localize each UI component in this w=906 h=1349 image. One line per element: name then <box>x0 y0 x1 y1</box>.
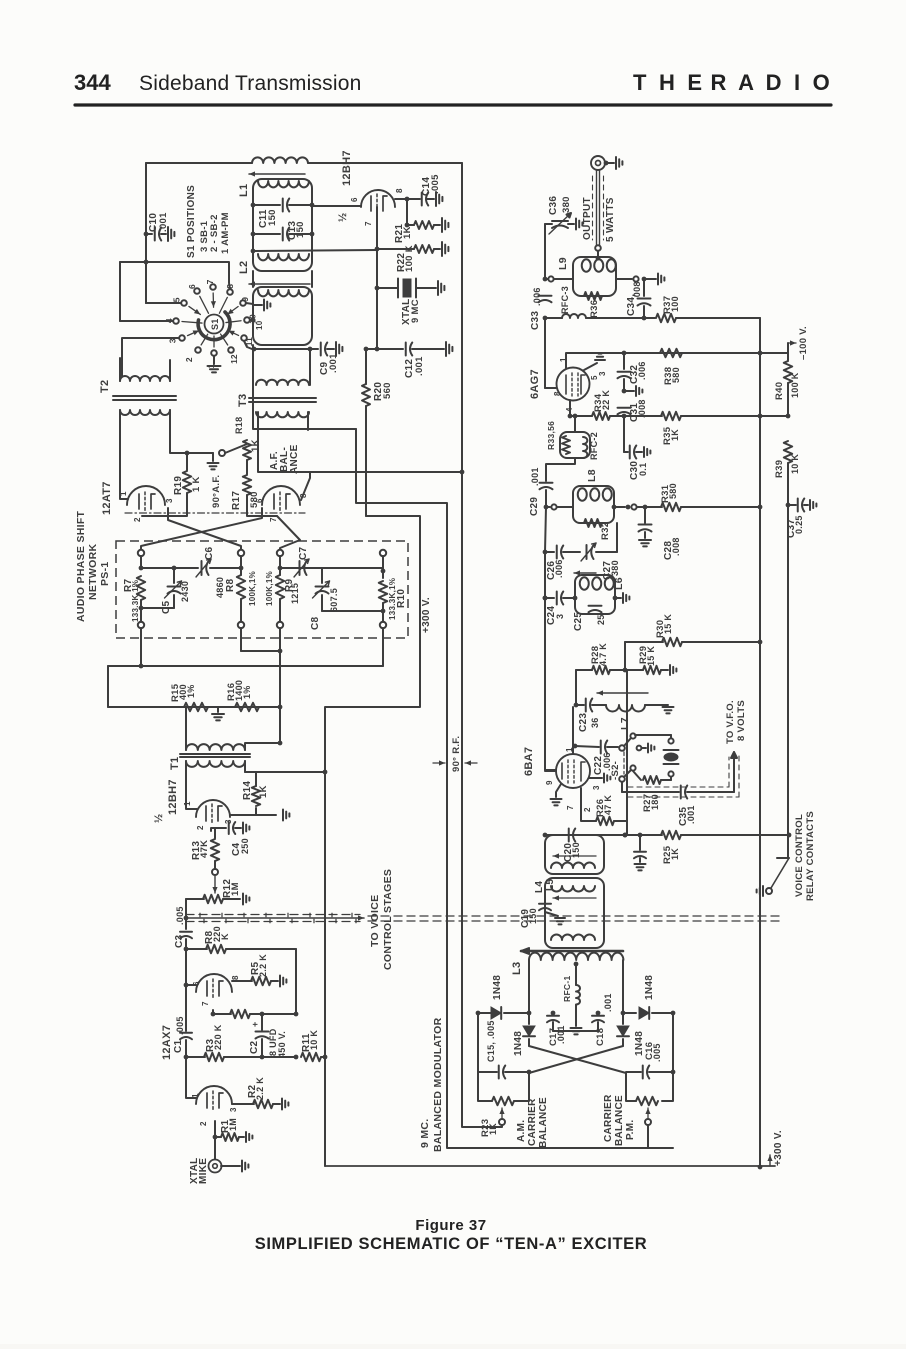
capacitor C20 <box>568 829 570 842</box>
wire 6BA7 pin7 ground <box>556 784 561 797</box>
svg-text:3: 3 <box>598 371 607 376</box>
svg-text:.001: .001 <box>328 353 339 373</box>
wire T3 sec left <box>258 412 310 472</box>
capacitor C23 <box>574 703 579 708</box>
capacitor C31 <box>618 407 631 409</box>
wire 6BA7 grid1 <box>545 770 556 772</box>
resistor R2 <box>232 1103 254 1105</box>
wire R8 down <box>295 949 297 1014</box>
ground C19 <box>545 912 558 916</box>
pot AM carrier balance <box>478 1072 492 1101</box>
svg-text:Sideband Transmission: Sideband Transmission <box>139 72 362 95</box>
tube V3 half 12BH7 <box>196 800 230 817</box>
svg-text:2: 2 <box>583 807 592 812</box>
microphone jack <box>209 1160 222 1173</box>
wire right rail B+ <box>759 318 761 1167</box>
capacitor C34 <box>643 279 645 296</box>
wire contact4 <box>120 320 173 322</box>
wire C17 C18 bus <box>553 1030 598 1032</box>
svg-text:1M: 1M <box>230 882 241 896</box>
terminal PS-1 bottom <box>238 622 244 628</box>
svg-text:C5: C5 <box>161 600 172 614</box>
svg-text:R18: R18 <box>234 417 244 434</box>
svg-text:P.M.: P.M. <box>625 1120 636 1140</box>
svg-text:.006: .006 <box>532 287 542 306</box>
transformer T3 <box>256 380 309 385</box>
resistor R4 <box>213 1013 231 1015</box>
svg-text:12AT7: 12AT7 <box>101 481 113 515</box>
switch S1 contact 5 <box>181 300 187 306</box>
resistor R11 <box>301 1053 321 1061</box>
svg-text:A.M.: A.M. <box>516 1120 527 1142</box>
wire R15 R16 row <box>107 666 109 707</box>
wire T2 primary left <box>119 358 121 381</box>
wire C30 <box>623 416 625 452</box>
resistor R13 <box>211 839 219 861</box>
dashed shield C35 <box>628 786 729 788</box>
svg-text:C36: C36 <box>548 196 559 215</box>
wire R28 R30 rail <box>624 642 626 670</box>
svg-text:1%: 1% <box>186 684 196 698</box>
wire plate to V-B <box>310 471 462 473</box>
wire bottom B+ rail <box>325 1165 775 1167</box>
wire tank divider to R22 line <box>251 249 256 254</box>
svg-text:RELAY CONTACTS: RELAY CONTACTS <box>805 811 816 901</box>
svg-text:580: 580 <box>249 491 260 508</box>
resistor R7 <box>140 556 142 568</box>
tube V2 half 12BH7 <box>361 190 395 207</box>
svg-text:C7: C7 <box>298 546 309 560</box>
svg-text:C15, .005: C15, .005 <box>486 1020 496 1062</box>
resistor R34 <box>592 412 610 420</box>
coupling bar L3 <box>521 950 623 953</box>
svg-text:C29: C29 <box>529 497 540 516</box>
wire crossover B <box>141 508 262 550</box>
svg-text:R17: R17 <box>231 491 242 510</box>
svg-text:RFC-2: RFC-2 <box>589 432 599 460</box>
switch S2 pole upper <box>619 745 625 751</box>
svg-text:8: 8 <box>231 975 240 980</box>
svg-text:4.7 K: 4.7 K <box>598 643 608 666</box>
svg-text:220 K: 220 K <box>213 1024 223 1050</box>
wire plate V4a <box>212 1010 214 1014</box>
wire C29 to L8 <box>546 506 550 508</box>
capacitor C12 <box>375 347 380 352</box>
svg-text:5: 5 <box>172 297 182 302</box>
svg-text:.008: .008 <box>632 281 642 300</box>
svg-text:6: 6 <box>187 284 197 289</box>
capacitor C22 <box>575 746 599 747</box>
capacitor C11 <box>253 204 280 206</box>
wire T2 primary right <box>169 360 171 381</box>
tuning arrow lower tank <box>249 283 310 285</box>
svg-text:0.25: 0.25 <box>794 515 804 534</box>
capacitor C35 row <box>621 782 623 792</box>
tube V1a 12AT7 <box>127 486 165 505</box>
wire L9 right <box>616 278 632 280</box>
svg-text:1N48: 1N48 <box>492 975 503 1000</box>
svg-text:7: 7 <box>269 517 278 522</box>
svg-text:250: 250 <box>240 838 250 854</box>
svg-text:C23: C23 <box>578 713 589 732</box>
diode D2 1N48 <box>639 1007 649 1019</box>
box PS-1 dashed <box>116 541 408 638</box>
resistor R29 <box>625 669 643 671</box>
resistor R9 <box>279 556 281 575</box>
tube V6 6BA7 <box>556 754 590 788</box>
switch S2 ground contact <box>637 746 642 751</box>
90 degree RF marker <box>433 762 445 764</box>
resistor R5 <box>232 980 252 982</box>
wire crossover D <box>277 516 300 550</box>
resistor R39 <box>760 415 788 417</box>
svg-text:MIKE: MIKE <box>198 1158 209 1184</box>
capacitor C17 <box>552 1013 554 1014</box>
svg-text:TO V.F.O.: TO V.F.O. <box>725 700 736 744</box>
terminal PS-1 bottom <box>380 622 386 628</box>
svg-text:NETWORK: NETWORK <box>87 544 99 600</box>
wiper R12 <box>214 861 216 869</box>
svg-text:1 AM-PM: 1 AM-PM <box>220 212 231 254</box>
svg-text:L9: L9 <box>557 257 569 270</box>
wire 6AG7 cathode <box>569 400 571 416</box>
svg-text:RFC-1: RFC-1 <box>562 975 572 1002</box>
relay contact <box>777 857 789 859</box>
capacitor C10 <box>144 232 149 237</box>
resistor R21 <box>406 199 408 225</box>
wire contact10 <box>250 319 253 321</box>
capacitor C6 variable <box>174 567 198 569</box>
capacitor C32 <box>623 353 625 369</box>
svg-text:100 K: 100 K <box>790 372 800 398</box>
wire x280 down <box>279 651 281 743</box>
svg-text:.006: .006 <box>637 361 647 380</box>
wire ring right rail <box>662 1013 673 1101</box>
wire relay rail <box>787 505 789 858</box>
svg-text:36: 36 <box>590 717 600 728</box>
A.F. balance wiper <box>187 452 213 454</box>
svg-text:R19: R19 <box>173 476 184 495</box>
svg-text:150: 150 <box>267 209 278 226</box>
wire cathode stub <box>365 348 367 350</box>
tube V5 6AG7 <box>557 368 590 401</box>
svg-text:OUTPUT: OUTPUT <box>582 197 593 240</box>
svg-text:450 V.: 450 V. <box>277 1031 287 1058</box>
crystal S2 <box>668 771 673 776</box>
capacitor C5 variable <box>141 567 174 569</box>
diode D4 1N48 <box>622 1013 624 1024</box>
wire contact3 <box>122 338 179 376</box>
svg-text:2.2 K: 2.2 K <box>255 1077 265 1100</box>
tank L8 box <box>573 486 614 523</box>
svg-text:.001: .001 <box>414 356 425 376</box>
svg-text:C2: C2 <box>249 1040 260 1054</box>
wire 6BA7 pin3 ground <box>589 777 602 779</box>
svg-text:L7: L7 <box>619 717 631 730</box>
switch S1 contact 8 <box>227 289 233 295</box>
svg-text:.001: .001 <box>158 212 169 232</box>
svg-text:1215: 1215 <box>290 583 300 604</box>
capacitor C16 <box>626 1071 641 1073</box>
svg-text:6BA7: 6BA7 <box>523 747 535 776</box>
resistor R15 <box>184 703 208 711</box>
tuning arrow L1 <box>249 173 305 175</box>
coil L2 <box>258 254 309 260</box>
header rule <box>75 103 831 106</box>
svg-text:380: 380 <box>561 196 572 213</box>
wire cross X <box>529 1046 626 1073</box>
svg-text:R32: R32 <box>600 522 611 540</box>
wire 6BA7 grid3 <box>572 746 574 754</box>
svg-text:.001: .001 <box>686 805 696 824</box>
switch S1 contact 10 <box>244 317 250 323</box>
terminal PS-1 top <box>277 550 283 556</box>
svg-text:10: 10 <box>255 320 264 330</box>
wire T3 sec right <box>307 412 309 430</box>
svg-text:C6: C6 <box>204 546 215 560</box>
svg-text:R33,56: R33,56 <box>546 421 556 450</box>
capacitor C28 <box>644 507 646 523</box>
svg-text:1: 1 <box>183 801 192 806</box>
wire S1 to C10 column <box>145 262 147 303</box>
wire left ring rail <box>476 1011 481 1016</box>
svg-text:C25: C25 <box>573 612 584 631</box>
wire T1 sec left <box>186 761 197 809</box>
svg-text:6: 6 <box>350 197 359 202</box>
terminal PS-1 top <box>380 550 386 556</box>
svg-text:3: 3 <box>592 785 601 790</box>
svg-text:15 K: 15 K <box>646 646 656 666</box>
svg-text:1N48: 1N48 <box>513 1031 524 1056</box>
svg-text:L3: L3 <box>511 962 523 975</box>
svg-text:C1: C1 <box>173 1039 184 1053</box>
cable ticks <box>199 913 201 917</box>
crystal XTAL 9MC <box>377 287 398 289</box>
switch S1 contact 6 <box>194 288 200 294</box>
wire 6AG7 screen ground <box>584 363 597 370</box>
switch S1 contact 1 <box>211 350 217 356</box>
capacitor C7 variable <box>299 561 301 575</box>
svg-text:12BH7: 12BH7 <box>167 779 179 815</box>
svg-text:3: 3 <box>555 614 565 619</box>
capacitor C36 variable <box>544 224 546 279</box>
svg-text:9: 9 <box>545 780 554 785</box>
svg-text:L2: L2 <box>238 261 250 274</box>
svg-text:7: 7 <box>364 221 373 226</box>
resistor R14 <box>230 808 256 815</box>
svg-text:90°A.F.: 90°A.F. <box>211 475 222 508</box>
svg-text:580: 580 <box>668 483 678 499</box>
wire L6 right ground <box>613 596 618 601</box>
capacitor C8 variable <box>321 568 323 583</box>
wire grid V4a <box>186 984 196 986</box>
ground R15 R16 <box>217 707 219 712</box>
svg-text:VOICE CONTROL: VOICE CONTROL <box>794 814 805 897</box>
svg-text:R36: R36 <box>589 300 600 318</box>
wire grid R12 <box>185 899 187 918</box>
svg-text:150: 150 <box>295 221 306 238</box>
resistor R3 <box>186 1056 205 1058</box>
wire 6AG7 plate row <box>566 353 760 368</box>
tank L6 box <box>575 575 615 614</box>
coil L7 <box>606 705 645 712</box>
svg-text:BALANCE: BALANCE <box>538 1097 549 1148</box>
svg-text:CARRIER: CARRIER <box>527 1098 538 1146</box>
resistor R36 <box>584 292 602 300</box>
wire tank rails <box>252 271 254 287</box>
terminal PS-1 bottom <box>277 622 283 628</box>
ground R14 <box>256 814 276 816</box>
transformer T2 <box>120 376 170 381</box>
resistor R10 <box>382 556 384 578</box>
capacitor C14 <box>421 193 423 206</box>
svg-text:+300 V.: +300 V. <box>421 597 432 633</box>
cable to voice control <box>184 916 189 921</box>
wire T1 pri left <box>185 707 187 750</box>
svg-text:1N48: 1N48 <box>644 975 655 1000</box>
svg-text:2: 2 <box>133 517 142 522</box>
wire diode row top <box>478 1012 491 1014</box>
svg-text:1 K: 1 K <box>191 476 202 492</box>
svg-text:ANCE: ANCE <box>289 444 300 474</box>
svg-text:T2: T2 <box>99 380 111 393</box>
wire mixer row <box>545 834 567 836</box>
svg-text:6AG7: 6AG7 <box>529 369 541 399</box>
svg-text:133.3K,1%: 133.3K,1% <box>131 580 140 622</box>
tank L9 box <box>573 257 616 296</box>
resistor R30 <box>625 641 663 643</box>
svg-text:1K: 1K <box>670 429 680 441</box>
wire crossover A <box>168 508 241 550</box>
svg-text:PS-1: PS-1 <box>99 561 111 586</box>
inductor series link top <box>252 157 308 163</box>
svg-text:½: ½ <box>153 814 165 823</box>
wire V-B rail <box>461 163 463 1013</box>
switch S1 contact 2 <box>195 347 201 353</box>
svg-text:L8: L8 <box>586 469 598 482</box>
svg-text:L1: L1 <box>238 184 250 197</box>
svg-text:½: ½ <box>337 213 349 222</box>
capacitor C33 <box>539 295 552 297</box>
svg-text:.001: .001 <box>603 993 613 1012</box>
terminal PS-1 top <box>138 550 144 556</box>
svg-text:9: 9 <box>240 297 250 302</box>
wire tank to V-A <box>253 349 356 429</box>
resistor R1 <box>213 1135 218 1140</box>
tube V1b 12AT7 <box>262 486 300 505</box>
svg-text:.001: .001 <box>530 467 540 486</box>
output feedline <box>596 170 598 245</box>
svg-text:R14: R14 <box>242 781 253 800</box>
resistor R25 <box>625 834 662 836</box>
wire contact11 <box>244 341 252 349</box>
svg-text:RFC-3: RFC-3 <box>560 286 570 314</box>
switch S2 link dashed <box>623 752 625 774</box>
svg-text:S1 POSITIONS: S1 POSITIONS <box>186 185 197 258</box>
svg-text:R10: R10 <box>396 589 407 608</box>
wire top rail <box>146 162 252 164</box>
wire V-A rail <box>356 429 673 1148</box>
svg-text:–100 V.: –100 V. <box>798 326 809 360</box>
svg-text:560: 560 <box>382 382 393 399</box>
svg-text:22 K: 22 K <box>601 390 611 410</box>
svg-text:R A D I O: R A D I O <box>710 70 833 95</box>
capacitor C30 <box>629 446 631 459</box>
svg-text:1K: 1K <box>488 1123 498 1135</box>
svg-text:BALANCE: BALANCE <box>614 1095 625 1146</box>
svg-text:0.1: 0.1 <box>638 463 648 476</box>
resistor R17 <box>246 460 248 474</box>
resistor R20 <box>366 348 377 350</box>
resistor R37 <box>644 317 655 319</box>
switch S1 contact 7 <box>210 284 216 290</box>
svg-text:15 K: 15 K <box>663 614 673 634</box>
wire crossover C <box>301 472 310 500</box>
R33 RFC-2 pair <box>573 414 578 419</box>
wire minus100 branch <box>787 343 789 355</box>
wire T1 sec right <box>244 761 246 772</box>
capacitor C3 <box>185 918 187 929</box>
svg-text:1K: 1K <box>402 226 413 239</box>
svg-text:1K: 1K <box>670 848 680 860</box>
svg-text:.005: .005 <box>175 1016 185 1035</box>
svg-text:2.2 K: 2.2 K <box>258 954 268 977</box>
tuning arrow L6 <box>574 572 596 574</box>
svg-text:R39: R39 <box>774 460 785 478</box>
svg-text:+300 V.: +300 V. <box>773 1130 784 1166</box>
ground C32 <box>624 390 634 392</box>
output jack <box>591 156 605 170</box>
capacitor C9 <box>254 348 314 350</box>
svg-text:47 K: 47 K <box>603 795 613 815</box>
svg-text:.006: .006 <box>554 559 564 578</box>
wire T1 pri right <box>245 743 280 750</box>
wire grid to tank <box>312 205 361 207</box>
diode D3 1N48 <box>528 1013 530 1024</box>
capacitor C15 <box>478 1071 497 1073</box>
svg-text:100 K: 100 K <box>404 245 415 272</box>
svg-text:2: 2 <box>196 825 205 830</box>
svg-text:R40: R40 <box>774 382 785 400</box>
svg-text:1K: 1K <box>250 439 261 452</box>
svg-text:K: K <box>220 933 230 940</box>
wire left rail mid <box>545 507 556 770</box>
svg-text:S1: S1 <box>210 318 220 330</box>
svg-text:2430: 2430 <box>180 581 190 602</box>
wire T2 sec left <box>120 410 128 499</box>
svg-text:4860: 4860 <box>215 577 225 598</box>
resistor R8 220K <box>186 948 207 950</box>
switch S1 contact 12 <box>228 347 234 353</box>
svg-text:5 WATTS: 5 WATTS <box>605 197 616 242</box>
capacitor C21 bypass <box>639 835 641 850</box>
wire grid V4b <box>186 1057 196 1098</box>
pot PM carrier balance <box>636 1097 658 1105</box>
svg-text:8 VOLTS: 8 VOLTS <box>736 700 747 741</box>
svg-text:344: 344 <box>74 70 111 95</box>
coil L3 <box>529 953 623 960</box>
wire R28 to grid <box>575 670 577 705</box>
switch S1 rotor <box>205 315 224 334</box>
resistor R19 <box>186 453 188 470</box>
svg-text:.005: .005 <box>652 1043 662 1062</box>
svg-text:12BH7: 12BH7 <box>341 150 353 186</box>
svg-text:10 K: 10 K <box>309 1030 319 1050</box>
resistor R28 <box>576 669 592 671</box>
resistor R16 <box>235 703 259 711</box>
wire L8 right <box>612 505 617 510</box>
wire L3 ends <box>528 960 530 1013</box>
